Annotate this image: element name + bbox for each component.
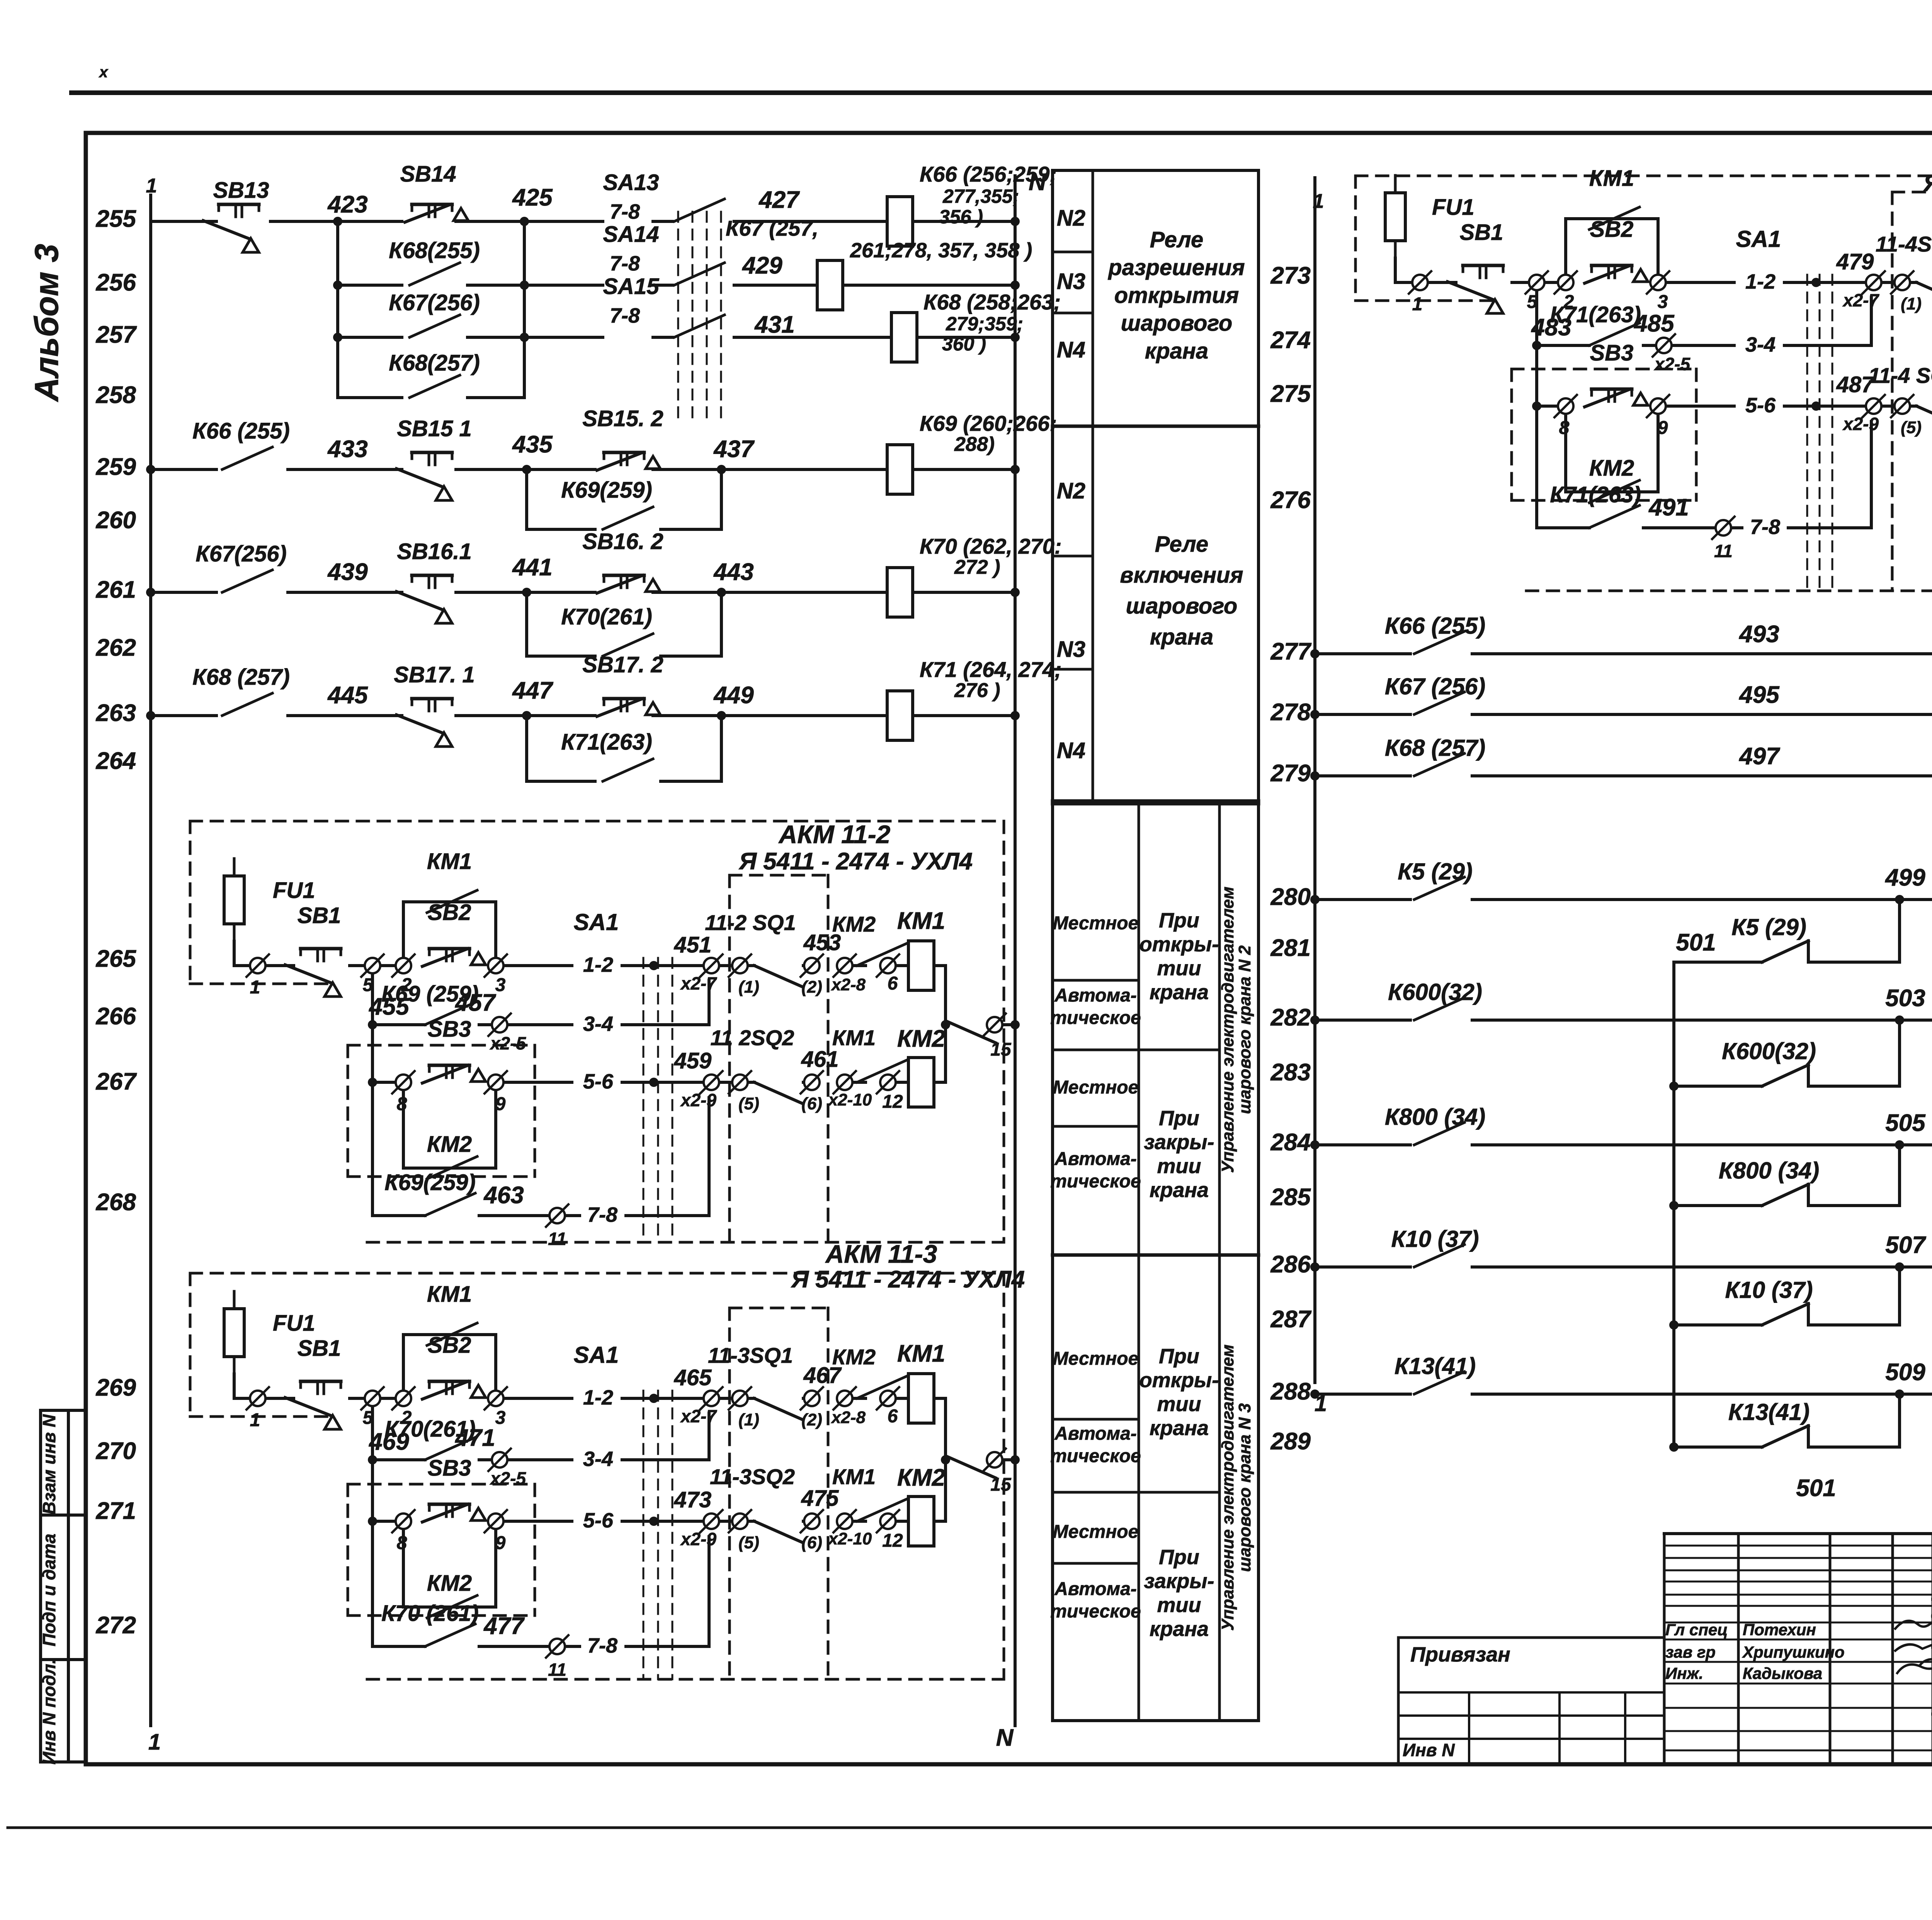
- svg-text:272 ): 272 ): [954, 556, 1000, 578]
- svg-text:282: 282: [1270, 1004, 1311, 1031]
- svg-text:360 ): 360 ): [942, 333, 986, 355]
- svg-text:1: 1: [1412, 294, 1423, 315]
- svg-text:1-2: 1-2: [583, 1386, 613, 1409]
- svg-text:SB16. 2: SB16. 2: [582, 529, 663, 554]
- svg-text:х: х: [99, 64, 109, 81]
- svg-text:КМ2: КМ2: [427, 1132, 472, 1157]
- svg-text:SB13: SB13: [213, 178, 269, 203]
- svg-text:3-4: 3-4: [1745, 333, 1776, 356]
- svg-text:501: 501: [1796, 1475, 1836, 1502]
- svg-text:441: 441: [512, 554, 552, 581]
- svg-text:(6): (6): [801, 1533, 822, 1552]
- svg-text:435: 435: [512, 431, 553, 458]
- svg-text:271: 271: [96, 1498, 136, 1524]
- svg-text:475: 475: [801, 1486, 839, 1511]
- svg-text:КМ1: КМ1: [832, 1464, 876, 1489]
- svg-text:11-4SQ1: 11-4SQ1: [1876, 232, 1932, 256]
- svg-text:275: 275: [1270, 381, 1311, 407]
- svg-text:273: 273: [1270, 262, 1311, 289]
- svg-text:FU1: FU1: [1432, 195, 1475, 220]
- svg-text:1: 1: [148, 1730, 161, 1755]
- svg-text:262: 262: [96, 634, 136, 661]
- svg-text:К5 (29): К5 (29): [1398, 859, 1473, 884]
- svg-text:N3: N3: [1057, 269, 1085, 294]
- svg-text:11 2SQ2: 11 2SQ2: [711, 1025, 794, 1050]
- svg-text:х2-8: х2-8: [831, 975, 866, 994]
- svg-text:431: 431: [754, 311, 794, 338]
- svg-text:7-8: 7-8: [587, 1203, 617, 1226]
- svg-text:457: 457: [454, 990, 496, 1016]
- svg-text:К66 (255): К66 (255): [192, 418, 290, 444]
- svg-text:х2-9: х2-9: [1842, 414, 1879, 434]
- svg-text:КМ2: КМ2: [1589, 456, 1634, 481]
- svg-text:483: 483: [1531, 314, 1571, 341]
- svg-text:К600(32): К600(32): [1722, 1038, 1816, 1064]
- svg-text:Местное: Местное: [1053, 1349, 1139, 1369]
- svg-text:269: 269: [96, 1374, 136, 1401]
- svg-text:11-3SQ2: 11-3SQ2: [710, 1464, 795, 1489]
- svg-text:крана: крана: [1150, 981, 1209, 1004]
- svg-text:491: 491: [1648, 494, 1689, 521]
- svg-text:260: 260: [96, 507, 136, 534]
- svg-text:SB1: SB1: [298, 903, 341, 928]
- svg-text:263: 263: [96, 700, 136, 726]
- svg-text:(5): (5): [738, 1533, 759, 1552]
- svg-text:х2-7: х2-7: [1842, 290, 1879, 310]
- svg-text:х2-9: х2-9: [680, 1529, 716, 1549]
- svg-text:К66 (256;259;: К66 (256;259;: [920, 162, 1057, 186]
- svg-text:285: 285: [1270, 1184, 1311, 1211]
- svg-text:445: 445: [327, 682, 368, 709]
- svg-text:закры-: закры-: [1144, 1570, 1214, 1593]
- svg-text:Автома-: Автома-: [1054, 1579, 1137, 1599]
- svg-text:288): 288): [954, 433, 995, 456]
- svg-text:270: 270: [96, 1438, 136, 1464]
- svg-text:277,355;: 277,355;: [942, 185, 1019, 207]
- svg-text:КМ2: КМ2: [832, 1345, 876, 1369]
- svg-text:х2-5: х2-5: [489, 1033, 526, 1053]
- svg-text:КМ1: КМ1: [1589, 166, 1634, 191]
- svg-text:N2: N2: [1057, 478, 1085, 503]
- svg-text:SА1: SА1: [574, 1342, 619, 1368]
- svg-text:Хрипушкино: Хрипушкино: [1742, 1643, 1845, 1661]
- svg-text:279: 279: [1270, 760, 1311, 787]
- svg-text:Склад цемента прирельсовый вме: Склад цемента прирельсовый вместимостью: [1930, 1604, 1932, 1627]
- svg-text:SА15: SА15: [603, 274, 659, 299]
- svg-text:433: 433: [327, 436, 367, 463]
- svg-text:Я 5411 - 2474 - УХЛ4: Я 5411 - 2474 - УХЛ4: [791, 1266, 1025, 1293]
- svg-text:(5): (5): [738, 1094, 759, 1113]
- svg-text:3-4: 3-4: [583, 1447, 613, 1471]
- svg-text:Я 5411 - 2474 - УХЛ4: Я 5411 - 2474 - УХЛ4: [738, 848, 973, 875]
- svg-text:тическое: тическое: [1050, 1601, 1141, 1622]
- svg-text:439: 439: [327, 559, 368, 585]
- svg-text:279;359;: 279;359;: [946, 313, 1023, 335]
- svg-text:х2-5: х2-5: [1653, 354, 1690, 374]
- svg-text:(1): (1): [1901, 294, 1922, 313]
- svg-text:261;278, 357, 358 ): 261;278, 357, 358 ): [850, 239, 1032, 262]
- svg-text:11: 11: [548, 1660, 566, 1680]
- svg-text:КМ2: КМ2: [897, 1025, 945, 1052]
- svg-text:шарового крана N 2: шарового крана N 2: [1235, 945, 1254, 1114]
- svg-text:КМ1: КМ1: [897, 1340, 945, 1367]
- svg-text:КМ1: КМ1: [832, 1025, 876, 1050]
- svg-text:495: 495: [1738, 682, 1780, 708]
- svg-text:274: 274: [1270, 327, 1311, 354]
- svg-text:SА13: SА13: [603, 170, 659, 195]
- svg-text:451: 451: [674, 932, 712, 957]
- svg-text:К68(255): К68(255): [389, 238, 480, 263]
- svg-text:Автома-: Автома-: [1054, 985, 1137, 1006]
- svg-text:Автома-: Автома-: [1054, 1149, 1137, 1169]
- svg-text:Реле: Реле: [1155, 532, 1208, 557]
- svg-text:FU1: FU1: [273, 1311, 315, 1336]
- svg-text:тии: тии: [1157, 1393, 1201, 1416]
- svg-text:Инв N: Инв N: [1403, 1740, 1455, 1760]
- svg-text:493: 493: [1738, 621, 1779, 648]
- svg-text:КМ1: КМ1: [897, 908, 945, 934]
- svg-text:Подп и дата: Подп и дата: [39, 1534, 59, 1646]
- svg-text:7-8: 7-8: [610, 200, 640, 223]
- svg-text:264: 264: [96, 748, 136, 774]
- svg-text:SB2: SB2: [1590, 217, 1634, 242]
- svg-text:7-8: 7-8: [587, 1634, 617, 1657]
- svg-text:SА1: SА1: [1736, 226, 1781, 252]
- svg-text:Инв N подл.: Инв N подл.: [39, 1659, 59, 1764]
- svg-text:501: 501: [1676, 929, 1716, 956]
- svg-text:257: 257: [96, 321, 137, 348]
- svg-text:5-6: 5-6: [1745, 394, 1776, 417]
- svg-text:Потехин: Потехин: [1743, 1621, 1816, 1639]
- svg-text:499: 499: [1884, 864, 1925, 891]
- svg-text:К66 (255): К66 (255): [1385, 613, 1485, 639]
- svg-text:11-3SQ1: 11-3SQ1: [708, 1343, 793, 1367]
- svg-text:SB14: SB14: [400, 162, 456, 187]
- svg-text:497: 497: [1738, 743, 1780, 770]
- svg-text:тии: тии: [1157, 1155, 1201, 1178]
- svg-text:255: 255: [96, 206, 137, 232]
- svg-text:крана: крана: [1150, 624, 1213, 650]
- svg-text:423: 423: [327, 191, 367, 218]
- svg-text:284: 284: [1270, 1129, 1311, 1156]
- svg-text:288: 288: [1270, 1378, 1311, 1405]
- svg-text:268: 268: [96, 1189, 136, 1216]
- svg-text:При: При: [1159, 1345, 1199, 1368]
- svg-text:N2: N2: [1057, 206, 1085, 231]
- svg-text:(2): (2): [801, 1410, 822, 1429]
- svg-text:259: 259: [96, 454, 136, 480]
- svg-text:SА1: SА1: [574, 909, 619, 935]
- svg-text:шарового крана N 3: шарового крана N 3: [1235, 1403, 1254, 1572]
- svg-text:SB17. 1: SB17. 1: [394, 662, 475, 687]
- svg-text:261: 261: [96, 577, 136, 603]
- svg-text:289: 289: [1270, 1428, 1311, 1455]
- svg-text:FU1: FU1: [273, 878, 315, 903]
- svg-text:3: 3: [1658, 292, 1668, 312]
- svg-text:11-2 SQ1: 11-2 SQ1: [705, 910, 796, 935]
- svg-text:465: 465: [674, 1365, 712, 1390]
- svg-text:Местное: Местное: [1053, 913, 1139, 934]
- svg-text:11: 11: [1714, 541, 1733, 561]
- svg-text:закры-: закры-: [1144, 1131, 1214, 1154]
- svg-text:15: 15: [990, 1039, 1012, 1060]
- svg-text:Взам инв N: Взам инв N: [39, 1414, 59, 1515]
- svg-text:К69(259): К69(259): [561, 478, 652, 503]
- svg-text:зав гр: зав гр: [1665, 1643, 1716, 1661]
- svg-text:крана: крана: [1145, 338, 1208, 364]
- svg-text:открытия: открытия: [1114, 283, 1239, 308]
- svg-text:Автома-: Автома-: [1054, 1423, 1137, 1444]
- svg-text:К71(263): К71(263): [1550, 482, 1641, 507]
- svg-text:К71 (264, 274;: К71 (264, 274;: [920, 657, 1062, 682]
- svg-text:SB3: SB3: [1590, 340, 1634, 366]
- svg-text:427: 427: [758, 187, 800, 213]
- svg-text:7-8: 7-8: [1750, 515, 1780, 539]
- svg-text:SB2: SB2: [428, 900, 471, 925]
- svg-text:449: 449: [713, 682, 754, 709]
- svg-text:266: 266: [96, 1003, 136, 1030]
- svg-text:К10 (37): К10 (37): [1725, 1277, 1813, 1303]
- svg-text:277: 277: [1270, 638, 1312, 665]
- svg-text:Местное: Местное: [1053, 1077, 1139, 1098]
- svg-text:Управление электродвигателем: Управление электродвигателем: [1218, 886, 1237, 1173]
- svg-text:5-6: 5-6: [583, 1509, 614, 1532]
- svg-text:х2-7: х2-7: [680, 1406, 717, 1426]
- svg-text:447: 447: [512, 677, 553, 704]
- svg-text:К70(261): К70(261): [561, 604, 652, 629]
- svg-text:(2): (2): [801, 978, 822, 997]
- svg-text:К68 (257): К68 (257): [1385, 735, 1485, 761]
- svg-text:тическое: тическое: [1050, 1008, 1141, 1028]
- svg-text:SB17. 2: SB17. 2: [582, 652, 663, 677]
- svg-text:6: 6: [888, 1406, 898, 1427]
- svg-text:При: При: [1159, 1107, 1199, 1130]
- svg-text:(5): (5): [1901, 418, 1922, 437]
- svg-text:509: 509: [1885, 1359, 1925, 1386]
- svg-text:443: 443: [713, 559, 753, 585]
- svg-text:откры-: откры-: [1139, 1369, 1219, 1392]
- svg-text:К67 (256): К67 (256): [1385, 673, 1485, 699]
- svg-text:1-2: 1-2: [583, 953, 613, 976]
- svg-text:1: 1: [250, 1410, 260, 1430]
- svg-text:К71(263): К71(263): [561, 730, 652, 755]
- svg-text:SB2: SB2: [428, 1333, 471, 1358]
- svg-text:КМ2: КМ2: [832, 912, 876, 936]
- svg-text:485: 485: [1633, 310, 1675, 337]
- svg-text:тии: тии: [1157, 1593, 1201, 1617]
- svg-text:286: 286: [1270, 1251, 1311, 1278]
- svg-text:К13(41): К13(41): [1728, 1399, 1810, 1425]
- svg-text:шарового: шарового: [1121, 311, 1233, 336]
- svg-text:507: 507: [1885, 1232, 1926, 1258]
- svg-text:265: 265: [96, 946, 137, 972]
- svg-text:455: 455: [368, 993, 410, 1020]
- svg-text:тическое: тическое: [1050, 1446, 1141, 1466]
- svg-text:SB3: SB3: [428, 1456, 471, 1481]
- svg-text:Управление электродвигателем: Управление электродвигателем: [1218, 1344, 1237, 1631]
- svg-text:N: N: [996, 1724, 1014, 1751]
- svg-text:5-6: 5-6: [583, 1070, 614, 1093]
- svg-text:477: 477: [483, 1613, 525, 1639]
- svg-text:(6): (6): [801, 1094, 822, 1113]
- svg-text:12: 12: [882, 1092, 903, 1112]
- svg-text:3: 3: [495, 975, 506, 995]
- svg-text:КМ2: КМ2: [427, 1571, 472, 1596]
- svg-text:11-4 SQ2: 11-4 SQ2: [1868, 363, 1932, 388]
- svg-text:К600(32): К600(32): [1388, 979, 1482, 1005]
- svg-text:К68(257): К68(257): [389, 350, 480, 376]
- svg-text:276 ): 276 ): [954, 679, 1000, 702]
- svg-text:Альбом 3: Альбом 3: [28, 244, 65, 402]
- svg-text:1: 1: [250, 977, 260, 998]
- svg-text:429: 429: [742, 252, 782, 279]
- svg-text:276: 276: [1270, 487, 1311, 514]
- svg-text:тическое: тическое: [1050, 1171, 1141, 1192]
- svg-text:272: 272: [96, 1612, 136, 1639]
- svg-text:479: 479: [1836, 249, 1874, 274]
- svg-text:АКМ 11-2: АКМ 11-2: [778, 820, 891, 849]
- svg-text:471: 471: [454, 1425, 495, 1451]
- svg-text:КМ2: КМ2: [897, 1464, 945, 1491]
- svg-text:КМ1: КМ1: [427, 849, 472, 874]
- svg-text:461: 461: [801, 1047, 839, 1072]
- svg-text:откры-: откры-: [1139, 933, 1219, 956]
- svg-text:1-2: 1-2: [1745, 270, 1776, 293]
- svg-text:х2-5: х2-5: [489, 1468, 526, 1488]
- svg-text:7-8: 7-8: [610, 304, 640, 327]
- svg-text:15: 15: [990, 1474, 1012, 1495]
- svg-text:Привязан: Привязан: [1410, 1643, 1510, 1666]
- svg-text:При: При: [1159, 909, 1199, 932]
- svg-text:(1): (1): [738, 1410, 759, 1429]
- svg-text:(1): (1): [738, 978, 759, 997]
- svg-text:503: 503: [1885, 985, 1925, 1012]
- svg-text:К13(41): К13(41): [1395, 1353, 1476, 1379]
- svg-text:К10 (37): К10 (37): [1391, 1226, 1479, 1252]
- svg-text:К67 (257,: К67 (257,: [726, 216, 818, 240]
- svg-text:287: 287: [1270, 1306, 1312, 1333]
- svg-text:SB3: SB3: [428, 1017, 471, 1042]
- svg-text:К69 (260;266:: К69 (260;266:: [920, 411, 1057, 435]
- svg-text:459: 459: [674, 1048, 712, 1073]
- svg-text:крана: крана: [1150, 1179, 1209, 1202]
- svg-text:SА14: SА14: [603, 222, 659, 247]
- svg-text:473: 473: [674, 1487, 712, 1512]
- svg-text:463: 463: [483, 1182, 524, 1209]
- svg-text:х2-9: х2-9: [680, 1090, 716, 1110]
- svg-text:Местное: Местное: [1053, 1522, 1139, 1542]
- svg-text:К67(256): К67(256): [389, 290, 480, 315]
- svg-text:425: 425: [512, 184, 553, 211]
- svg-text:К800 (34): К800 (34): [1719, 1158, 1819, 1184]
- svg-text:437: 437: [713, 436, 755, 463]
- svg-text:1: 1: [1313, 190, 1324, 213]
- svg-text:К800 (34): К800 (34): [1385, 1104, 1485, 1130]
- svg-text:6: 6: [888, 973, 898, 994]
- svg-text:11: 11: [548, 1229, 566, 1249]
- svg-text:шарового: шарового: [1126, 594, 1238, 619]
- svg-text:505: 505: [1885, 1110, 1926, 1136]
- svg-text:х2-7: х2-7: [680, 973, 717, 993]
- svg-text:3: 3: [495, 1408, 506, 1428]
- svg-text:12: 12: [882, 1531, 903, 1551]
- svg-text:тии: тии: [1157, 957, 1201, 980]
- svg-text:Я 5411 - 2474 - УХЛ4: Я 5411 - 2474 - УХЛ4: [1923, 170, 1932, 197]
- svg-text:SB1: SB1: [1460, 220, 1503, 245]
- svg-text:3-4: 3-4: [583, 1012, 613, 1036]
- svg-text:К67(256): К67(256): [196, 541, 287, 566]
- svg-text:К68 (258;263;: К68 (258;263;: [923, 290, 1061, 314]
- svg-text:469: 469: [368, 1429, 409, 1455]
- svg-text:К69(259): К69(259): [384, 1170, 476, 1195]
- svg-text:283: 283: [1270, 1059, 1311, 1086]
- svg-text:крана: крана: [1150, 1617, 1209, 1641]
- svg-text:крана: крана: [1150, 1417, 1209, 1440]
- svg-text:356 ): 356 ): [939, 206, 983, 228]
- svg-text:267: 267: [96, 1068, 137, 1095]
- svg-text:SB15. 2: SB15. 2: [582, 406, 663, 431]
- svg-text:разрешения: разрешения: [1107, 255, 1245, 280]
- svg-text:7-8: 7-8: [610, 252, 640, 275]
- svg-text:SB16.1: SB16.1: [397, 539, 471, 564]
- svg-text:АКМ 11-3: АКМ 11-3: [825, 1240, 937, 1268]
- svg-text:SB1: SB1: [298, 1336, 341, 1361]
- svg-text:280: 280: [1270, 884, 1311, 910]
- svg-text:SB15 1: SB15 1: [397, 416, 471, 441]
- svg-text:Инж.: Инж.: [1665, 1664, 1703, 1682]
- svg-text:х2-10: х2-10: [828, 1529, 872, 1548]
- svg-text:Гл спец: Гл спец: [1665, 1621, 1728, 1639]
- svg-text:Реле: Реле: [1150, 227, 1203, 252]
- svg-text:256: 256: [96, 269, 136, 296]
- svg-text:N4: N4: [1057, 337, 1085, 362]
- svg-text:К68 (257): К68 (257): [192, 665, 290, 690]
- svg-text:Кадыкова: Кадыкова: [1743, 1664, 1822, 1682]
- svg-text:включения: включения: [1120, 563, 1243, 588]
- svg-text:278: 278: [1270, 699, 1311, 726]
- svg-text:258: 258: [96, 382, 136, 408]
- svg-text:х2-8: х2-8: [831, 1408, 866, 1427]
- svg-text:N4: N4: [1057, 738, 1085, 763]
- svg-text:При: При: [1159, 1546, 1199, 1569]
- svg-text:281: 281: [1270, 935, 1311, 961]
- svg-text:К70 (262, 270:: К70 (262, 270:: [920, 534, 1062, 558]
- svg-text:1: 1: [146, 175, 157, 197]
- svg-text:К70 (261): К70 (261): [381, 1601, 479, 1626]
- svg-text:КМ1: КМ1: [427, 1282, 472, 1307]
- svg-text:х2-10: х2-10: [828, 1090, 872, 1109]
- svg-text:К5 (29): К5 (29): [1731, 914, 1806, 940]
